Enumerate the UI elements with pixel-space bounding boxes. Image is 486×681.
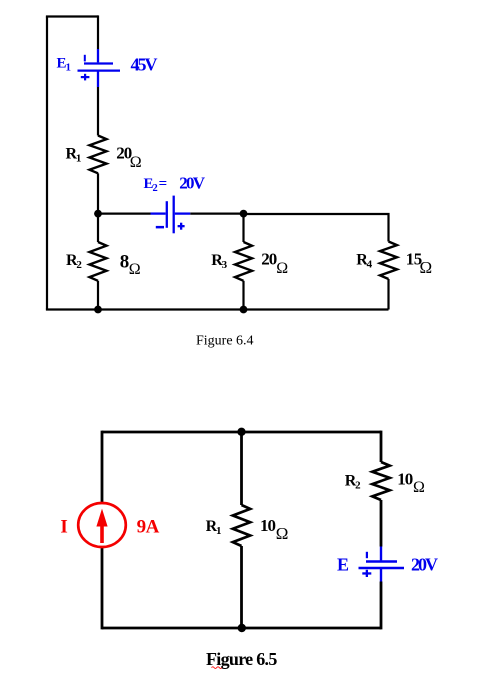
wire: fig6.5 middle branch top <box>240 432 243 505</box>
wire: fig6.5 left branch below current source <box>101 547 104 629</box>
svg-text:R1: R1 <box>66 145 82 164</box>
battery E (fig6.5) <box>359 547 405 582</box>
svg-text:Ω: Ω <box>413 479 425 496</box>
svg-text:Ω: Ω <box>130 154 142 171</box>
wire: node B down to R3 <box>242 214 244 242</box>
wire: battery E1 to resistor R1 <box>97 87 99 136</box>
wire: R2 to bottom node <box>97 281 99 310</box>
wire: fig6.4 left outer branch <box>46 17 48 310</box>
junction dot fig6.5 top <box>237 428 245 436</box>
junction dot bottom-mid <box>240 306 248 314</box>
battery E1 <box>78 49 121 87</box>
resistor R2 <box>90 242 107 281</box>
node A (junction dot left) <box>94 210 102 218</box>
battery E2 plus sign <box>178 223 185 230</box>
resistor R3 <box>235 242 252 281</box>
svg-text:Figure 6.5: Figure 6.5 <box>206 649 277 669</box>
wire: node A down to R2 <box>97 214 99 242</box>
wire: node A to battery E2 <box>98 213 151 215</box>
resistor R1 (fig6.5) <box>233 505 250 546</box>
battery E2 <box>151 196 191 234</box>
wire: fig6.4 bottom wire <box>46 308 389 310</box>
svg-text:20V: 20V <box>411 554 438 574</box>
battery E plus sign <box>362 570 371 577</box>
resistor R4 <box>380 242 397 280</box>
svg-text:Ω: Ω <box>420 258 433 277</box>
wire: battery E to bottom wire <box>380 582 383 630</box>
spellcheck squiggle under Fi <box>212 667 222 669</box>
wire: top wire down to battery E1 <box>97 15 99 49</box>
svg-text:Figure 6.4: Figure 6.4 <box>196 333 254 348</box>
battery E minus tick <box>366 552 368 558</box>
resistor R1 <box>90 136 107 174</box>
current source arrow <box>100 522 104 543</box>
svg-text:20: 20 <box>261 250 277 269</box>
svg-text:10: 10 <box>397 470 413 489</box>
battery E1 plus sign <box>81 74 90 81</box>
svg-text:45V: 45V <box>131 55 158 75</box>
wire: fig6.5 outer rectangle bottom <box>102 627 381 630</box>
svg-text:20V: 20V <box>179 173 205 192</box>
svg-text:R2: R2 <box>66 252 82 271</box>
svg-text:9A: 9A <box>137 517 160 538</box>
svg-text:E: E <box>337 554 349 574</box>
current source I <box>78 503 126 547</box>
svg-text:=: = <box>159 176 168 192</box>
wire: node B to R4 branch corner <box>244 214 389 242</box>
svg-text:10: 10 <box>260 516 276 535</box>
wire: R1 down to node A <box>97 173 99 213</box>
svg-text:Ω: Ω <box>276 524 289 543</box>
node B (junction dot mid) <box>240 210 248 218</box>
svg-text:E1: E1 <box>57 55 72 73</box>
wire: R2 down to battery E <box>380 500 383 547</box>
wire: fig6.5 middle branch bottom <box>240 546 243 628</box>
svg-text:I: I <box>60 516 67 537</box>
wire: R3 to bottom node <box>242 281 244 310</box>
svg-text:Ω: Ω <box>129 261 141 278</box>
junction dot bottom-left <box>94 306 102 314</box>
wire: fig6.5 outer rectangle top <box>102 431 381 434</box>
resistor R2 (fig6.5) <box>372 462 389 500</box>
battery E1 minus tick <box>84 55 86 62</box>
wire: fig6.4 top wire <box>46 15 98 17</box>
wire: fig6.5 right branch top <box>380 431 383 462</box>
svg-text:R2: R2 <box>345 473 361 492</box>
svg-text:R3: R3 <box>211 252 227 271</box>
junction dot fig6.5 bottom <box>238 624 246 632</box>
svg-text:E2: E2 <box>144 176 158 194</box>
svg-text:R1: R1 <box>206 518 222 537</box>
wire: battery E2 to node B <box>190 213 243 215</box>
svg-text:R4: R4 <box>356 251 372 270</box>
svg-text:Ω: Ω <box>276 260 288 277</box>
wire: fig6.5 left branch above current source <box>101 431 104 503</box>
battery E2 minus sign <box>156 226 164 229</box>
wire: R4 to bottom wire <box>387 279 389 310</box>
